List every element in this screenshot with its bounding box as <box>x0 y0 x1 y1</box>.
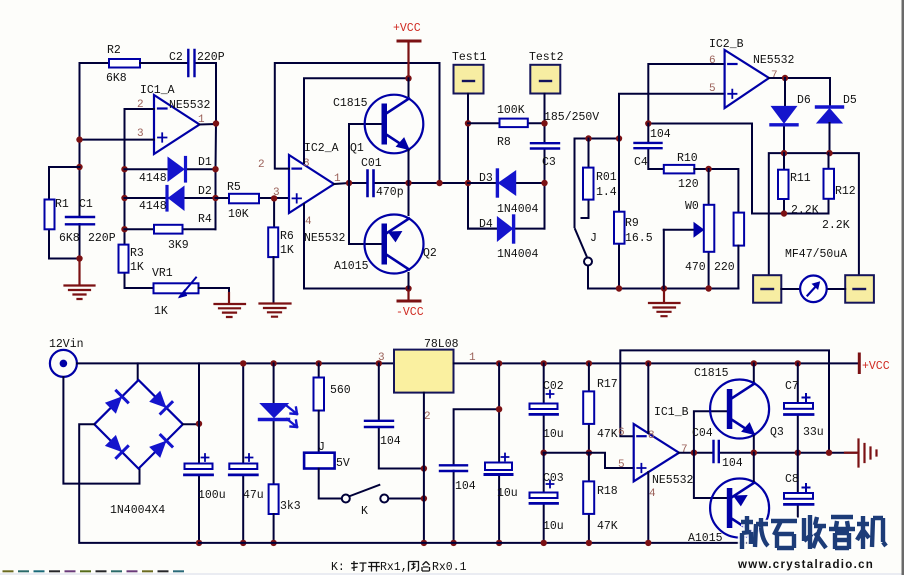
svg-text:47u: 47u <box>243 489 264 502</box>
transistor Q3 C1815 <box>694 367 784 439</box>
wire pin8 stub <box>647 363 649 433</box>
node 100u bottom <box>196 540 202 546</box>
svg-text:IC1_B: IC1_B <box>654 406 689 419</box>
test point Test1 <box>454 65 484 94</box>
node C1 bottom <box>76 255 82 261</box>
node 78L08 out <box>496 360 502 366</box>
node output IC1_B <box>691 450 697 456</box>
svg-text:4: 4 <box>305 216 312 228</box>
svg-text:1N4004: 1N4004 <box>497 203 539 216</box>
node rail C7 <box>795 360 801 366</box>
op-amp IC1_B <box>634 424 679 481</box>
wire pin3 from R5 <box>273 198 275 227</box>
node rail LED <box>270 360 276 366</box>
node Q3 emitter row <box>751 450 757 456</box>
svg-text:A1015: A1015 <box>688 532 723 545</box>
node R9 bottom <box>616 285 622 291</box>
op-amp IC2_A <box>289 155 334 213</box>
wire bottom rail <box>199 542 754 544</box>
svg-text:C3: C3 <box>542 156 556 169</box>
svg-text:www.crystalradio.cn: www.crystalradio.cn <box>737 559 874 571</box>
svg-text:1K: 1K <box>154 305 168 318</box>
svg-text:-VCC: -VCC <box>396 306 424 319</box>
svg-text:4148: 4148 <box>139 200 167 213</box>
wire D5 column <box>829 123 831 153</box>
svg-text:R17: R17 <box>597 378 618 391</box>
logo 矿石收音机 <box>741 515 886 549</box>
wire main rail top <box>77 362 394 364</box>
svg-text:3: 3 <box>378 352 385 364</box>
svg-text:VR1: VR1 <box>152 267 173 280</box>
wire K to pin2 column <box>389 498 424 500</box>
resistor R4 3K9 <box>154 225 183 234</box>
svg-text:1K: 1K <box>130 261 144 274</box>
svg-text:7: 7 <box>681 444 688 456</box>
resistor R2 <box>109 59 140 68</box>
svg-text:3: 3 <box>137 128 144 140</box>
svg-text:220P: 220P <box>197 51 225 64</box>
switch J <box>575 229 587 256</box>
resistor R6 1K <box>268 227 278 257</box>
node 3k3 bottom <box>270 540 276 546</box>
svg-text:R18: R18 <box>597 485 618 498</box>
svg-text:6: 6 <box>709 55 716 67</box>
svg-text:J: J <box>318 441 325 454</box>
node D5 R12 <box>826 150 832 156</box>
wire pin4 to -VCC rail <box>304 204 409 289</box>
power -VCC <box>407 289 409 301</box>
wire R10 right to 220 <box>694 169 738 213</box>
svg-text:1N4004X4: 1N4004X4 <box>110 504 165 517</box>
node C02 C03 <box>541 450 547 456</box>
node D1 right <box>212 166 218 172</box>
wire D2 row <box>125 197 216 199</box>
diode bridge bottom-left <box>105 435 128 458</box>
LED <box>273 363 275 484</box>
wire meter top row <box>769 153 859 275</box>
svg-text:Q2: Q2 <box>423 247 437 260</box>
node out cap <box>496 406 502 412</box>
resistor 220 <box>734 213 745 246</box>
op-amp IC1_A <box>154 95 200 154</box>
wire R6 to ground <box>273 257 275 302</box>
svg-text:2: 2 <box>258 159 265 171</box>
svg-text:2.2K: 2.2K <box>822 219 850 232</box>
svg-text:6K8: 6K8 <box>59 232 80 245</box>
node rail pin8 <box>645 360 651 366</box>
svg-text:R10: R10 <box>677 152 698 165</box>
svg-text:D4: D4 <box>479 218 493 231</box>
svg-text:2: 2 <box>424 411 431 423</box>
capacitor C2 220P <box>188 50 194 76</box>
svg-text:C01: C01 <box>361 157 382 170</box>
capacitor C8 <box>797 453 799 517</box>
wire output row IC1_B <box>679 452 856 454</box>
capacitor 104 relay <box>379 363 424 468</box>
node loop corner row <box>826 450 832 456</box>
diode D4 1N4004 <box>497 217 512 241</box>
svg-text:6K8: 6K8 <box>106 72 127 85</box>
node R11 bottom <box>781 210 787 216</box>
wire Q3 collector <box>753 363 755 452</box>
svg-text:12Vin: 12Vin <box>49 338 84 351</box>
transistor Q2 A1015 <box>334 215 437 274</box>
node D2 left <box>121 195 127 201</box>
svg-text:R01: R01 <box>596 171 617 184</box>
diode bridge bottom-right <box>149 435 172 458</box>
wire R1 branch <box>49 167 80 259</box>
svg-text:3k3: 3k3 <box>280 500 301 513</box>
wire output node column <box>200 124 217 230</box>
wire D3 row <box>468 182 545 184</box>
node output IC1_A <box>213 120 219 126</box>
node 10u out bottom <box>496 540 502 546</box>
node R1 branch <box>76 164 82 170</box>
svg-text:NE5532: NE5532 <box>753 54 795 67</box>
svg-text:Q3: Q3 <box>770 426 784 439</box>
svg-text:5V: 5V <box>336 457 350 470</box>
wire D4 row <box>468 228 545 230</box>
node C03 bottom <box>541 540 547 546</box>
node pin4 bottom <box>645 540 651 546</box>
svg-text:C4: C4 <box>634 156 648 169</box>
svg-text:120: 120 <box>678 178 699 191</box>
svg-text:104: 104 <box>380 435 401 448</box>
wire R8 row <box>468 122 545 124</box>
node C01 right <box>405 180 411 186</box>
node rail 104 <box>376 360 382 366</box>
wire 78L08 output <box>454 362 544 364</box>
svg-text:MF47/50uA: MF47/50uA <box>785 248 847 261</box>
svg-text:1.4: 1.4 <box>596 186 617 199</box>
capacitor C04 104 <box>714 441 719 462</box>
node ground mid <box>661 285 667 291</box>
svg-text:6: 6 <box>618 427 625 439</box>
svg-text:R4: R4 <box>198 213 212 226</box>
node C7 row <box>795 450 801 456</box>
svg-text:C1815: C1815 <box>333 97 368 110</box>
svg-text:100u: 100u <box>198 489 226 502</box>
node rail R17 <box>586 360 592 366</box>
node D3 left <box>465 180 471 186</box>
rectifier bridge 1N4004X4 <box>94 380 183 517</box>
svg-text:R9: R9 <box>625 217 639 230</box>
capacitor C02 10u <box>543 363 545 452</box>
node rail Q3 <box>751 360 757 366</box>
node pin2 column mid <box>421 465 427 471</box>
resistor R9 16.5 <box>618 139 620 289</box>
power +VCC <box>407 42 409 79</box>
svg-text:4: 4 <box>649 488 656 500</box>
wire bases column IC1_B <box>694 411 727 498</box>
wire W0 wiper to rail <box>663 230 665 289</box>
svg-text:NE5532: NE5532 <box>169 99 211 112</box>
node D3 right <box>541 180 547 186</box>
resistor R8 100K <box>500 119 528 128</box>
switch K <box>342 495 350 503</box>
diode D5 <box>817 109 842 123</box>
svg-text:C04: C04 <box>692 427 713 440</box>
svg-text:4148: 4148 <box>139 172 167 185</box>
wire Q4 emitter collector <box>753 453 755 543</box>
svg-text:Rx0.1: Rx0.1 <box>432 561 467 574</box>
svg-text:R11: R11 <box>790 172 811 185</box>
wire pin2 input <box>125 109 155 169</box>
capacitor C7 33u <box>797 363 799 452</box>
svg-text:+VCC: +VCC <box>393 22 421 35</box>
node pin3 <box>76 136 82 142</box>
node bridge plus <box>196 421 202 427</box>
wire 78L08 pin2 <box>423 393 425 543</box>
svg-text:IC1_A: IC1_A <box>140 84 175 97</box>
window border right <box>902 0 904 575</box>
transistor Q4 A1015 <box>688 479 769 546</box>
ground under R6 <box>260 304 291 317</box>
svg-text:C03: C03 <box>543 472 564 485</box>
wire pin4 stub <box>647 472 649 543</box>
svg-text:J: J <box>590 232 597 245</box>
diode D1 4148 <box>168 158 184 182</box>
capacitor C4 104 <box>648 124 664 170</box>
svg-text:Test1: Test1 <box>452 51 487 64</box>
wire D1 row <box>125 168 216 170</box>
node VCC Q1 collector <box>405 75 411 81</box>
resistor R5 10K <box>229 194 259 204</box>
capacitor C1 220P <box>66 217 94 224</box>
svg-text:R2: R2 <box>107 44 121 57</box>
svg-text:Test2: Test2 <box>529 51 564 64</box>
svg-text:R3: R3 <box>130 247 144 260</box>
svg-text:5: 5 <box>618 459 625 471</box>
resistor R10 120 <box>664 165 695 174</box>
node D2 right / R5 <box>212 195 218 201</box>
wire pin8 rail <box>304 78 409 163</box>
svg-text:A1015: A1015 <box>334 260 369 273</box>
capacitor C3 <box>531 143 559 148</box>
node R4 left <box>121 226 127 232</box>
node R18 bottom <box>586 540 592 546</box>
svg-text:2.2K: 2.2K <box>791 204 819 217</box>
svg-text:R6: R6 <box>280 230 294 243</box>
wire D6 column <box>784 78 785 153</box>
regulator 78L08 <box>394 350 454 393</box>
svg-text:IC2_A: IC2_A <box>304 142 339 155</box>
svg-text:7: 7 <box>771 70 778 82</box>
svg-text:78L08: 78L08 <box>424 338 459 351</box>
svg-text:D5: D5 <box>843 94 857 107</box>
svg-text:Q1: Q1 <box>350 142 364 155</box>
node R17 R18 <box>586 450 592 456</box>
node R01 top <box>585 135 591 141</box>
node pin2 bottom <box>421 540 427 546</box>
node R9 top row <box>616 135 622 141</box>
svg-text:220P: 220P <box>88 232 116 245</box>
svg-text:+VCC: +VCC <box>862 360 890 373</box>
wire R4 row <box>125 228 216 230</box>
wire Test1 column <box>468 94 498 229</box>
ground right sideways <box>845 440 877 467</box>
test point Test2 <box>530 65 560 94</box>
capacitor 100u <box>198 363 200 543</box>
wire Test2 column <box>544 94 546 229</box>
wire bridge minus to bottom rail <box>79 424 199 543</box>
power +VCC right <box>858 354 861 373</box>
svg-text:W0: W0 <box>685 200 699 213</box>
node D1 left <box>121 166 127 172</box>
node pin3 R6 <box>271 195 277 201</box>
node R10 W0 <box>705 166 711 172</box>
wire Q1 collector/emitter column <box>408 78 410 288</box>
wire bridge plus row <box>183 423 199 425</box>
svg-text:D6: D6 <box>797 94 811 107</box>
svg-text:1N4004: 1N4004 <box>497 248 539 261</box>
svg-text:C7: C7 <box>785 380 799 393</box>
svg-text:47K: 47K <box>597 520 618 533</box>
svg-text:K: K <box>361 505 368 518</box>
capacitor 47u <box>242 363 244 543</box>
resistor R12 2.2K <box>828 153 830 213</box>
svg-text:R12: R12 <box>835 185 856 198</box>
wire node row to R01 R9 <box>575 139 620 228</box>
wire R2 feedback loop left column <box>80 63 110 259</box>
node rail C02 <box>541 360 547 366</box>
wire output row IC2_A <box>334 183 468 184</box>
node 47u bottom <box>240 540 246 546</box>
wire pin3 input <box>80 139 155 141</box>
svg-text:NE5532: NE5532 <box>652 474 694 487</box>
svg-text:3K9: 3K9 <box>168 239 189 252</box>
wire R5 row to IC2_A <box>216 197 290 199</box>
wire R2 to C2 <box>140 63 216 124</box>
svg-text:470: 470 <box>685 261 706 274</box>
text 打开Rx1,闭合Rx0.1 <box>351 561 430 572</box>
potentiometer W0 470 <box>708 169 710 287</box>
svg-text:R5: R5 <box>227 181 241 194</box>
node K column <box>421 495 427 501</box>
resistor R3 1K <box>119 245 129 273</box>
wire inverting column <box>125 169 154 288</box>
svg-text:16.5: 16.5 <box>625 232 653 245</box>
transistor Q1 C1815 <box>333 95 423 155</box>
svg-text:R1: R1 <box>55 198 69 211</box>
wire relay to switch K <box>319 469 342 499</box>
resistor R11 2.2K <box>783 153 785 213</box>
node Test2 R8 <box>541 120 547 126</box>
svg-text:C1815: C1815 <box>694 367 729 380</box>
node loop corner <box>436 180 442 186</box>
wire sleeve to bridge bottom <box>63 377 139 484</box>
resistor R17 47K <box>588 363 590 452</box>
svg-text:5: 5 <box>709 83 716 95</box>
wire pin6 loop IC1_B <box>620 350 829 452</box>
svg-text:C1: C1 <box>79 198 93 211</box>
svg-text:1K: 1K <box>280 244 294 257</box>
wire pin5 row <box>619 94 725 139</box>
wire pin6 loop <box>648 64 724 124</box>
node -VCC <box>405 285 411 291</box>
ground mid <box>649 289 680 317</box>
svg-text:1: 1 <box>469 352 476 364</box>
node rail 47u <box>240 360 246 366</box>
node output IC2_B <box>782 75 788 81</box>
ground under C1 <box>65 259 95 300</box>
node output IC2_A <box>346 180 352 186</box>
diode D3 1N4004 <box>499 171 516 195</box>
node D6 R11 <box>781 150 787 156</box>
node W0 bottom <box>705 285 711 291</box>
svg-text:104: 104 <box>455 480 476 493</box>
node C4 top <box>645 120 651 126</box>
diode D6 <box>772 106 797 123</box>
resistor R1 <box>45 200 55 230</box>
capacitor C03 10u <box>543 453 545 543</box>
svg-text:D1: D1 <box>198 156 212 169</box>
wire pin2 feedback loop <box>275 63 440 183</box>
svg-text:560: 560 <box>330 384 351 397</box>
svg-text:104: 104 <box>650 128 671 141</box>
svg-text:10u: 10u <box>497 487 518 500</box>
svg-text:C8: C8 <box>785 473 799 486</box>
wire output IC2_B row <box>769 78 830 105</box>
svg-text:185/250V: 185/250V <box>544 111 599 124</box>
svg-text:C02: C02 <box>543 380 564 393</box>
node Test1 R8 <box>465 120 471 126</box>
svg-text:33u: 33u <box>803 426 824 439</box>
svg-text:Rx1,: Rx1, <box>380 561 408 574</box>
capacitor 104 out <box>440 465 467 471</box>
resistor R01 1.4 <box>582 139 589 219</box>
wire rail right section <box>544 362 858 364</box>
svg-text:10u: 10u <box>543 428 564 441</box>
diode D2 4148 <box>169 187 185 211</box>
resistor 3k3 <box>269 484 279 514</box>
svg-text:NE5532: NE5532 <box>304 232 346 245</box>
wire C4 node to R11 R12 bottom <box>648 124 828 214</box>
svg-text:IC2_B: IC2_B <box>709 38 744 51</box>
resistor 560 <box>318 363 320 377</box>
svg-text:D2: D2 <box>198 185 212 198</box>
wire VR1 to ground <box>199 288 230 303</box>
wire out cap branch <box>454 363 500 543</box>
svg-text:100K: 100K <box>497 104 525 117</box>
capacitor 10u out <box>485 463 512 471</box>
node 104 out bottom <box>450 540 456 546</box>
svg-text:D3: D3 <box>479 172 493 185</box>
node rail 560 <box>316 360 322 366</box>
resistor R18 47K <box>588 453 590 543</box>
capacitor C01 470p <box>368 171 374 197</box>
wire mid row to pin5 <box>544 453 634 468</box>
svg-text:220: 220 <box>714 261 735 274</box>
svg-text:C2: C2 <box>169 51 183 64</box>
relay J 5V <box>318 411 320 453</box>
ground right of VR1 <box>215 293 246 317</box>
svg-text:47K: 47K <box>597 428 618 441</box>
marquee dashes bottom-left <box>3 570 185 572</box>
svg-text:10K: 10K <box>228 208 249 221</box>
svg-text:K:: K: <box>331 561 345 574</box>
wire bottom rail mid <box>588 288 739 290</box>
svg-text:470p: 470p <box>376 186 404 199</box>
wire bases column <box>349 124 382 244</box>
svg-text:104: 104 <box>722 457 743 470</box>
svg-text:10u: 10u <box>543 520 564 533</box>
diode bridge top-left <box>105 391 128 414</box>
wire bridge top stub <box>137 363 139 380</box>
svg-text:R8: R8 <box>497 136 511 149</box>
diode bridge top-right <box>149 391 172 414</box>
op-amp IC2_B <box>725 50 769 108</box>
